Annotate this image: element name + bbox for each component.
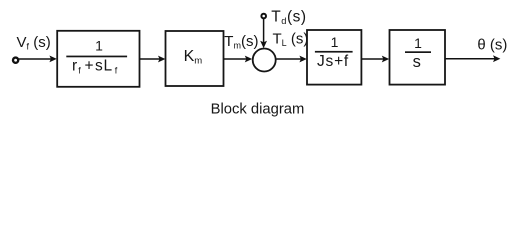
wire input to G1 [19, 58, 52, 60]
svg-text:s: s [413, 53, 421, 71]
wire G4 to output [445, 58, 495, 60]
svg-text:Tm(s): Tm(s) [224, 33, 258, 51]
svg-text:s: s [95, 58, 103, 75]
block G2 motor gain [166, 31, 224, 86]
block G3 inertia load [307, 30, 361, 85]
svg-text:Td(s): Td(s) [271, 9, 306, 27]
block G4 integrator [390, 30, 446, 85]
wire junction to G3 [277, 58, 302, 60]
svg-text:r: r [72, 58, 77, 75]
svg-text:Vf (s): Vf (s) [17, 34, 51, 52]
svg-text:1: 1 [95, 38, 103, 54]
wire G2 to summing junction [224, 58, 247, 60]
wire G3 to G4 [361, 58, 384, 60]
wire Td to junction [263, 19, 265, 44]
svg-text:TL (s): TL (s) [273, 30, 309, 48]
svg-text:θ (s): θ (s) [477, 36, 507, 53]
svg-text:Block diagram: Block diagram [211, 101, 305, 117]
svg-text:L: L [104, 58, 113, 75]
svg-text:+: + [85, 58, 94, 75]
block G1 field circuit [57, 31, 139, 87]
summing junction [253, 49, 276, 72]
svg-text:Js+f: Js+f [317, 53, 349, 70]
disturbance node Td [261, 14, 266, 19]
wire G1 to G2 [140, 58, 160, 60]
svg-text:1: 1 [414, 35, 422, 51]
input node Vf [13, 58, 18, 63]
svg-text:1: 1 [331, 34, 339, 50]
